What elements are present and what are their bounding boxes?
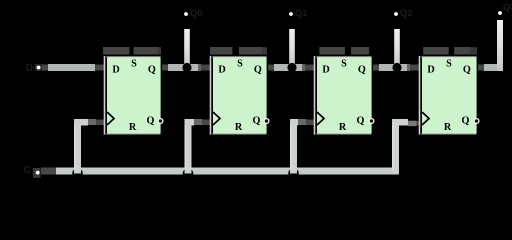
svg-text:Q: Q xyxy=(462,115,470,126)
svg-text:S: S xyxy=(131,58,137,69)
svg-text:S: S xyxy=(341,58,347,69)
svg-text:D: D xyxy=(26,63,33,74)
svg-text:D: D xyxy=(218,64,225,75)
svg-text:Q3: Q3 xyxy=(503,2,512,13)
svg-text:Q: Q xyxy=(357,115,365,126)
svg-text:R: R xyxy=(339,122,347,133)
svg-text:Q1: Q1 xyxy=(295,8,308,19)
svg-text:R: R xyxy=(444,122,452,133)
svg-text:Q2: Q2 xyxy=(400,8,413,19)
svg-text:Q: Q xyxy=(358,64,366,75)
svg-text:Q: Q xyxy=(254,64,262,75)
svg-text:R: R xyxy=(235,122,243,133)
svg-text:C: C xyxy=(24,165,31,176)
svg-text:S: S xyxy=(237,58,243,69)
svg-text:R: R xyxy=(129,122,137,133)
svg-text:Q: Q xyxy=(253,115,261,126)
svg-text:D: D xyxy=(112,64,119,75)
svg-text:Q0: Q0 xyxy=(190,8,203,19)
svg-text:S: S xyxy=(446,58,452,69)
svg-text:D: D xyxy=(322,64,329,75)
svg-text:D: D xyxy=(427,64,434,75)
svg-text:Q: Q xyxy=(147,115,155,126)
svg-text:Q: Q xyxy=(463,64,471,75)
svg-text:Q: Q xyxy=(148,64,156,75)
